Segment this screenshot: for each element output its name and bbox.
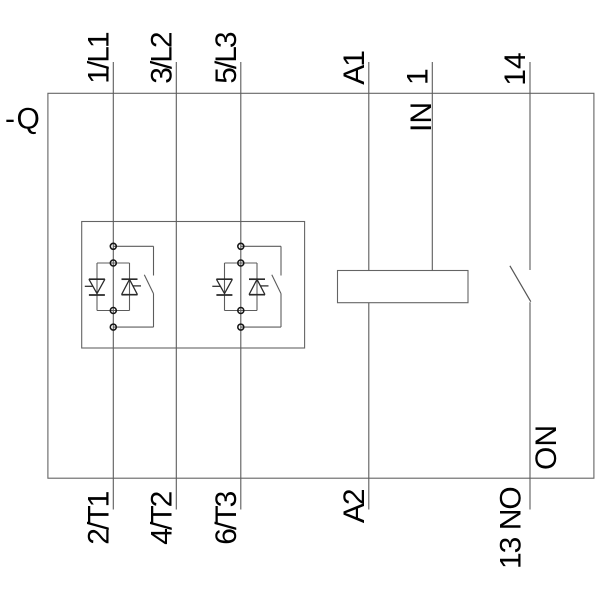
svg-text:6/T3: 6/T3 bbox=[210, 491, 243, 544]
svg-text:ON: ON bbox=[530, 425, 563, 470]
svg-text:-Q: -Q bbox=[5, 102, 41, 135]
svg-text:14: 14 bbox=[499, 52, 532, 85]
svg-text:4/T2: 4/T2 bbox=[145, 491, 178, 544]
svg-text:13 NO: 13 NO bbox=[494, 487, 527, 569]
svg-text:IN: IN bbox=[405, 102, 438, 132]
svg-text:2/T1: 2/T1 bbox=[82, 491, 115, 544]
svg-text:1: 1 bbox=[402, 68, 435, 85]
svg-text:1/L1: 1/L1 bbox=[82, 32, 115, 84]
svg-text:5/L3: 5/L3 bbox=[210, 32, 243, 84]
svg-text:3/L2: 3/L2 bbox=[145, 32, 178, 84]
svg-text:A1: A1 bbox=[338, 51, 371, 85]
svg-text:A2: A2 bbox=[338, 489, 371, 523]
